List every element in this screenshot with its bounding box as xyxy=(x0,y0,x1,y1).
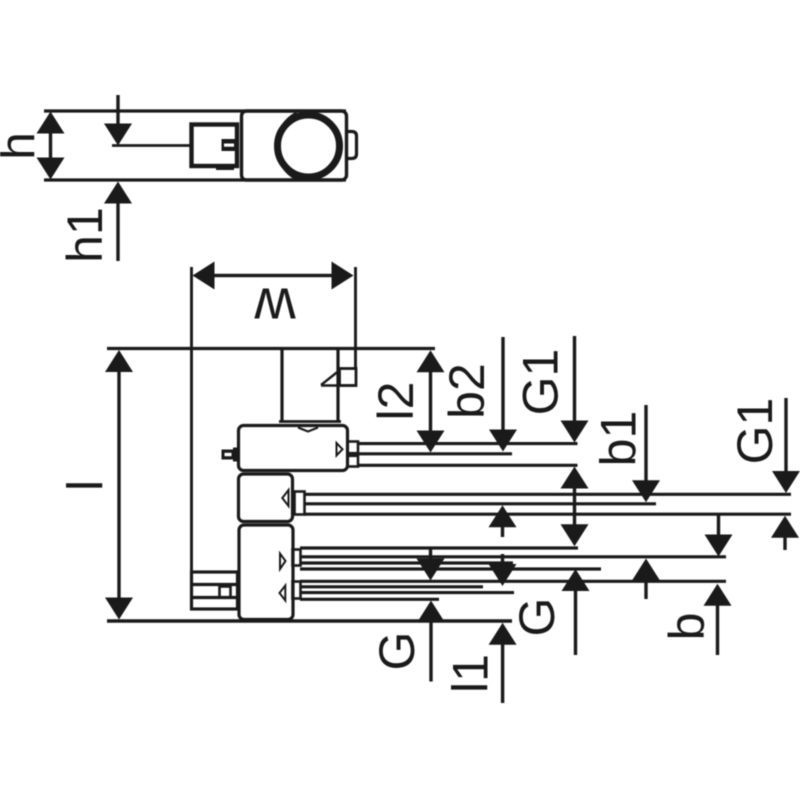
tube 4 lines xyxy=(300,581,726,599)
label l2 xyxy=(368,382,424,421)
top view: body outline top and bottom lines xyxy=(44,111,346,180)
dimension l1 pointer xyxy=(489,623,517,703)
label G first xyxy=(369,632,425,671)
dimension l xyxy=(105,350,133,620)
dimension b2 xyxy=(489,337,517,452)
top view: h1 reference mid line xyxy=(112,144,191,147)
svg-text:h1: h1 xyxy=(57,207,113,263)
label G1 second xyxy=(727,398,783,465)
dimension G1 second lower pointer xyxy=(771,516,799,550)
dimension h1 upper pointer xyxy=(104,95,132,146)
svg-text:G: G xyxy=(369,632,425,671)
svg-text:l2: l2 xyxy=(368,382,424,421)
front view: neck xyxy=(282,349,338,421)
label b1 xyxy=(590,411,646,467)
label b xyxy=(659,613,715,641)
front view: block 1 xyxy=(239,426,348,471)
front view: neck diagonal chamfer xyxy=(321,372,356,386)
front view: bottom extension line xyxy=(107,619,512,623)
front view: neck flange line xyxy=(279,420,341,423)
front view: flow triangle in block 1 xyxy=(337,443,343,456)
front view: flow triangle lower in block 3 xyxy=(280,586,286,601)
dimension b1 lower pointer xyxy=(632,559,660,600)
svg-text:l1: l1 xyxy=(442,654,498,693)
top view: cable connector xyxy=(192,125,238,169)
front view: top extension line xyxy=(107,347,435,350)
dimension G first lower pointer xyxy=(417,601,445,682)
dimension G1 first upper pointer xyxy=(561,336,589,443)
svg-text:G: G xyxy=(509,598,565,637)
label h xyxy=(0,132,45,160)
label h1 xyxy=(57,207,113,263)
front view: bleed nipple on block 1 xyxy=(222,448,239,462)
top view: knob ring xyxy=(278,115,340,177)
dimension between tube 2 and tube 4 xyxy=(489,505,517,586)
top view: right tab xyxy=(347,132,357,159)
tube 3 lines xyxy=(300,548,726,569)
svg-text:l: l xyxy=(57,480,113,491)
label G second xyxy=(509,598,565,637)
tube 4 connector xyxy=(293,582,301,599)
dimension h1 lower pointer xyxy=(104,182,132,262)
front view: flow triangle in block 2 xyxy=(282,490,288,506)
dimension G1 second upper pointer xyxy=(772,398,800,493)
dimension w left extension line xyxy=(190,267,193,572)
dimension b lower pointer xyxy=(704,584,732,655)
tube 3 connector xyxy=(293,550,301,566)
dimension w line with arrows xyxy=(193,262,354,290)
tube 1 connector xyxy=(348,442,359,467)
label l1 xyxy=(442,654,498,693)
dimension b1 upper pointer xyxy=(632,405,660,502)
front view: flow triangle upper in block 3 xyxy=(280,554,286,570)
svg-text:w: w xyxy=(254,276,297,340)
label w xyxy=(254,276,297,340)
label l xyxy=(57,480,113,491)
dimension b upper pointer xyxy=(705,514,733,557)
dimension h xyxy=(37,112,65,180)
top view: head rounded rectangle xyxy=(242,111,347,180)
svg-text:G1: G1 xyxy=(512,349,568,416)
top view: knob left arc xyxy=(277,113,297,179)
svg-text:h: h xyxy=(0,132,45,160)
front view: block 2 xyxy=(239,474,293,522)
tube 2 connector xyxy=(295,492,305,515)
dimension G first upper pointer xyxy=(417,549,445,581)
dimension w right extension line xyxy=(354,267,357,369)
svg-text:G1: G1 xyxy=(727,398,783,465)
front view: block 1 top notch xyxy=(298,428,318,432)
front view: block 3 xyxy=(239,525,293,620)
front view: mounting bracket xyxy=(192,572,238,609)
tube 2 lines xyxy=(305,494,792,514)
tube 1 lines xyxy=(358,444,578,466)
svg-text:b1: b1 xyxy=(590,411,646,467)
dimension G second pointer xyxy=(562,569,590,655)
front view: neck side box xyxy=(340,369,357,386)
dimension G1 first lower pointer pair xyxy=(561,467,589,547)
label b2 xyxy=(439,363,495,419)
svg-text:b2: b2 xyxy=(439,363,495,419)
label G1 first xyxy=(512,349,568,416)
svg-text:b: b xyxy=(659,613,715,641)
dimension l2 xyxy=(417,350,445,452)
